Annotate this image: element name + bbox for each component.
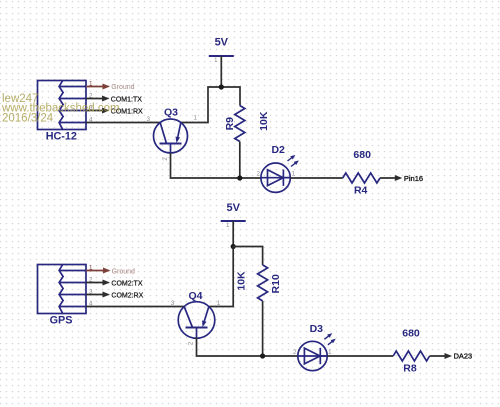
svg-text:1: 1: [217, 300, 221, 307]
wire D3 to R8: [327, 355, 393, 357]
svg-text:Ground: Ground: [112, 268, 135, 275]
connector GPS pin 1 internal lead: [59, 270, 86, 272]
svg-text:5V: 5V: [215, 37, 229, 49]
connector GPS pin 4 internal lead: [59, 306, 86, 308]
svg-text:R10: R10: [270, 274, 282, 293]
transistor Q3 body circle: [154, 119, 188, 153]
svg-text:HC-12: HC-12: [46, 131, 77, 143]
power symbol 5V bar: [221, 220, 246, 222]
transistor Q3 emitter line with arrow: [178, 123, 181, 137]
connector GPS pin 3 internal lead: [59, 294, 86, 296]
junction node top rail: [219, 84, 224, 89]
LED D3 body circle: [298, 341, 327, 370]
LED D2 emission arrows: [286, 153, 296, 162]
junction node R10/LED row: [260, 353, 265, 358]
wire Q3 to LED row: [171, 153, 261, 178]
svg-text:1: 1: [193, 115, 197, 122]
net Ground (bottom) arrow: [86, 270, 105, 272]
svg-text:10K: 10K: [235, 271, 247, 291]
svg-text:1: 1: [291, 171, 295, 178]
LED D3 cathode lead: [320, 355, 327, 357]
net COM2:RX arrow: [86, 294, 105, 296]
connector GPS zigzag: [59, 265, 63, 314]
svg-text:1: 1: [328, 349, 332, 356]
LED D2 body circle: [261, 163, 290, 192]
wire HC-12 pin4 to Q3: [86, 122, 160, 124]
svg-text:10K: 10K: [258, 111, 270, 131]
junction node R9/LED row: [237, 175, 242, 180]
resistor R9: [235, 106, 245, 142]
connector HC-12 pin 1 internal lead: [59, 86, 86, 88]
transistor Q4 collector line: [184, 307, 192, 328]
svg-text:2: 2: [187, 341, 194, 345]
transistor Q4 base bar: [186, 327, 208, 329]
wire 5V to junction (bottom): [232, 221, 234, 247]
svg-text:COM2:RX: COM2:RX: [111, 292, 143, 299]
net COM1:TX arrow: [86, 98, 104, 100]
svg-text:Q3: Q3: [164, 106, 178, 118]
svg-text:D2: D2: [271, 144, 285, 156]
junction node bottom rail: [231, 244, 236, 249]
transistor Q4 emitter line with arrow: [204, 307, 209, 322]
wire junction down to Q4 collector: [209, 247, 233, 307]
net COM2:TX arrow: [86, 282, 105, 284]
LED D3 cathode bar: [319, 348, 321, 364]
transistor Q3 base stub inside: [170, 144, 172, 154]
connector GPS pin 2 internal lead: [59, 282, 86, 284]
svg-text:R4: R4: [354, 184, 368, 196]
resistor R10: [258, 265, 268, 301]
transistor Q3 base bar: [160, 143, 182, 145]
resistor R4: [343, 173, 380, 183]
LED D3 emission arrows: [323, 332, 333, 341]
wire D2 to R4: [290, 177, 342, 179]
svg-text:2: 2: [257, 171, 261, 178]
svg-text:DA23: DA23: [454, 352, 473, 361]
wire R10 to LED row: [262, 301, 264, 356]
LED D3 triangle: [304, 348, 320, 364]
LED D2 cathode bar: [282, 170, 284, 186]
connector HC-12 pin 3 internal lead: [59, 110, 86, 112]
resistor R8: [393, 351, 429, 361]
svg-text:5V: 5V: [226, 202, 240, 214]
wire junction to R10: [233, 247, 262, 265]
net COM1:RX arrow: [86, 110, 104, 112]
net Pin16 arrow: [380, 177, 397, 179]
transistor Q4 base stub inside: [196, 328, 198, 339]
LED D3 anode lead: [298, 355, 327, 357]
svg-text:2: 2: [162, 157, 169, 161]
svg-text:GPS: GPS: [50, 315, 73, 327]
connector HC-12 pin 2 internal lead: [59, 98, 86, 100]
wire GPS pin4 to Q4: [86, 306, 184, 308]
svg-text:3: 3: [146, 116, 150, 123]
connector HC-12 pin 4 internal lead: [59, 122, 86, 124]
transistor Q4 body circle: [178, 302, 215, 339]
svg-text:680: 680: [353, 149, 371, 161]
net Ground (top) arrow: [86, 86, 105, 88]
connector HC-12 body: [38, 81, 87, 130]
svg-text:D3: D3: [310, 323, 324, 335]
LED D2 triangle: [268, 170, 284, 186]
power symbol 5V bar: [209, 55, 234, 57]
wire top rail staple: [181, 87, 240, 123]
svg-text:R9: R9: [224, 117, 236, 131]
connector HC-12 zigzag: [59, 81, 63, 130]
svg-text:3: 3: [171, 300, 175, 307]
LED D2 anode lead: [261, 177, 290, 179]
svg-text:2016/3/24: 2016/3/24: [2, 112, 54, 124]
svg-text:COM2:TX: COM2:TX: [111, 281, 142, 288]
LED D2 cathode lead: [283, 177, 290, 179]
connector GPS body: [38, 265, 87, 314]
svg-text:Q4: Q4: [188, 290, 202, 302]
wire Q4 to LED row: [197, 337, 298, 356]
svg-text:2: 2: [293, 349, 297, 356]
svg-text:Pin16: Pin16: [404, 174, 423, 183]
svg-text:R8: R8: [403, 362, 417, 374]
wire 5V to junction: [220, 56, 222, 87]
transistor Q3 collector line: [160, 123, 166, 144]
svg-text:680: 680: [402, 327, 420, 339]
svg-text:Ground: Ground: [111, 84, 134, 91]
net DA23 arrow: [430, 355, 447, 357]
wire R9 to LED row: [239, 142, 241, 179]
